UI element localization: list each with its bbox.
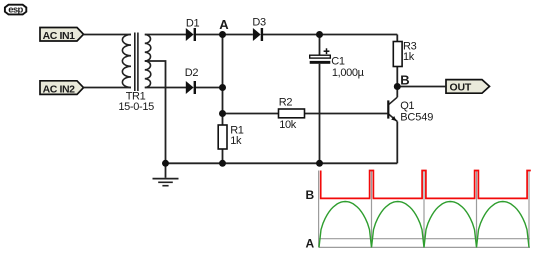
svg-text:BC549: BC549 — [400, 111, 433, 123]
svg-text:A: A — [219, 17, 229, 32]
svg-text:15-0-15: 15-0-15 — [118, 101, 154, 113]
svg-text:1k: 1k — [230, 135, 242, 147]
svg-text:B: B — [400, 72, 409, 87]
svg-text:Q1: Q1 — [400, 100, 414, 112]
svg-text:10k: 10k — [279, 119, 297, 131]
svg-text:OUT: OUT — [450, 82, 472, 94]
svg-text:A: A — [306, 237, 315, 251]
svg-text:B: B — [306, 188, 315, 202]
svg-text:esp: esp — [8, 4, 23, 15]
svg-text:AC IN1: AC IN1 — [43, 30, 76, 42]
svg-text:D2: D2 — [185, 67, 199, 79]
svg-text:D3: D3 — [252, 17, 266, 29]
svg-text:AC IN2: AC IN2 — [43, 83, 76, 95]
svg-text:D1: D1 — [186, 17, 200, 29]
svg-text:C1: C1 — [331, 55, 345, 67]
svg-text:1k: 1k — [403, 51, 415, 63]
svg-text:1,000µ: 1,000µ — [332, 67, 365, 79]
svg-text:R2: R2 — [279, 97, 293, 109]
